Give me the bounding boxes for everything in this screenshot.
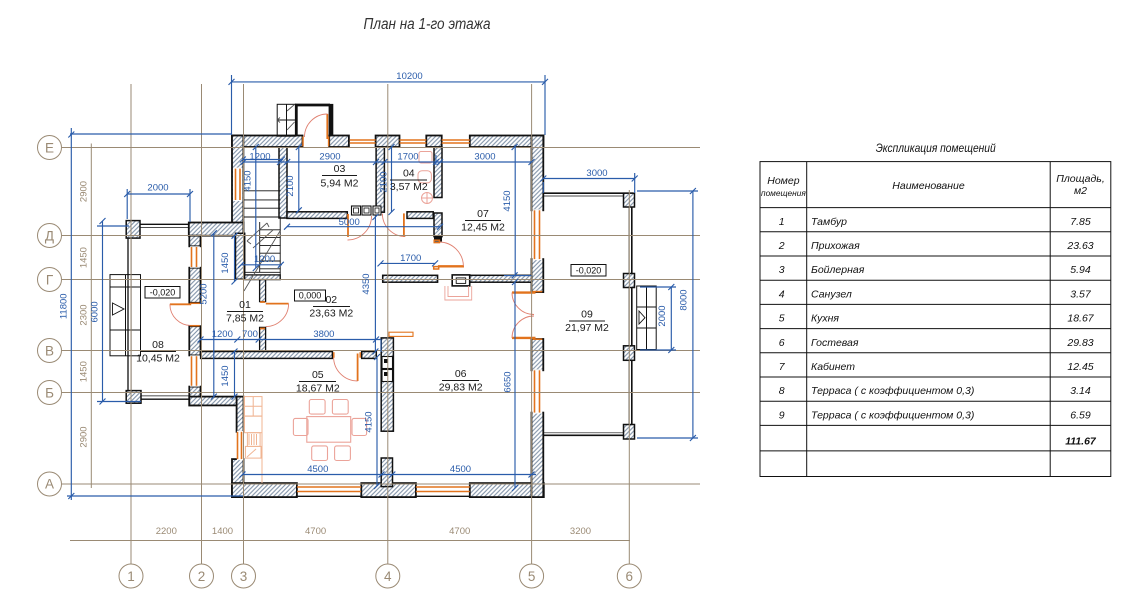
svg-text:Экспликация помещений: Экспликация помещений	[876, 143, 997, 155]
dim 4150 kitchen	[376, 357, 378, 486]
interior wall 03|04	[376, 147, 384, 212]
upper-left outer wall	[232, 136, 243, 236]
svg-text:01: 01	[239, 299, 251, 311]
door 07 leaf	[438, 265, 464, 267]
svg-text:9: 9	[779, 409, 785, 421]
svg-text:05: 05	[312, 369, 324, 381]
kitchen counter top right	[389, 332, 413, 336]
interior wall right of 04	[434, 147, 442, 197]
terrace pier mid1	[624, 274, 635, 288]
circle 1	[119, 564, 143, 588]
svg-text:21,97 М2: 21,97 М2	[565, 322, 609, 334]
svg-text:29,83 М2: 29,83 М2	[439, 382, 483, 394]
bottom axes dim line	[70, 540, 630, 542]
axis E line	[62, 147, 700, 149]
svg-text:2000: 2000	[147, 183, 168, 194]
room 05 label	[296, 369, 340, 395]
balcony doors leaves	[512, 291, 536, 293]
svg-text:4150: 4150	[363, 411, 374, 432]
svg-text:2100: 2100	[285, 175, 296, 196]
svg-text:Бойлерная: Бойлерная	[811, 264, 865, 276]
door 07 arc	[439, 242, 464, 266]
door 05 arc	[334, 357, 358, 381]
svg-text:3.57: 3.57	[1070, 288, 1092, 300]
svg-text:7: 7	[779, 361, 786, 373]
svg-text:4350: 4350	[361, 273, 372, 294]
svg-text:111.67: 111.67	[1065, 436, 1097, 448]
svg-text:4: 4	[779, 288, 785, 300]
svg-text:2900: 2900	[319, 152, 340, 163]
fireplace	[445, 275, 472, 300]
axis A line	[62, 483, 700, 485]
porch steps arrow	[113, 303, 125, 315]
door 04 leaf	[403, 213, 405, 236]
dim 6000 line	[102, 221, 104, 402]
svg-text:А: А	[45, 477, 54, 492]
top interior dim row	[244, 161, 532, 163]
svg-text:10200: 10200	[396, 71, 422, 82]
kitchen counters	[245, 397, 263, 483]
svg-text:0,000: 0,000	[299, 291, 322, 301]
wall stub 01|02 lower	[260, 327, 266, 351]
dim 4500 line	[243, 474, 537, 476]
porch steps	[110, 275, 141, 356]
wc toilet	[418, 152, 433, 204]
lower-left jog	[189, 397, 237, 406]
svg-text:3000: 3000	[474, 152, 495, 163]
svg-text:4700: 4700	[305, 526, 326, 537]
dim 11800 line	[70, 128, 72, 500]
wall stub 01|02 upper	[260, 280, 266, 302]
wall at G axis under stairs	[245, 275, 281, 280]
room 03 label	[321, 163, 359, 190]
window left upper wall	[236, 169, 241, 200]
svg-text:4150: 4150	[502, 190, 513, 211]
terrace top wall	[543, 192, 633, 194]
svg-text:1450: 1450	[79, 361, 90, 382]
svg-text:5,94 М2: 5,94 М2	[321, 178, 359, 190]
svg-text:Прихожая: Прихожая	[811, 240, 860, 252]
svg-text:5: 5	[528, 569, 536, 584]
circle V	[38, 339, 62, 363]
svg-text:3: 3	[779, 264, 785, 276]
window west wall 2	[192, 356, 197, 386]
window right wall 1	[535, 210, 540, 259]
west door leaf	[170, 303, 191, 305]
svg-text:3200: 3200	[570, 526, 591, 537]
axis D line	[62, 235, 700, 237]
svg-text:3: 3	[240, 569, 248, 584]
axis 1 line	[130, 84, 132, 564]
terrace pier top	[624, 193, 635, 207]
svg-text:2: 2	[778, 240, 785, 252]
porch pier top-left	[126, 221, 140, 239]
level 0.000	[295, 290, 326, 301]
svg-text:В: В	[45, 344, 54, 359]
room 08 label	[136, 339, 180, 365]
svg-text:5.94: 5.94	[1070, 264, 1091, 276]
dim 1450 upper	[234, 236, 236, 282]
door 03 arc	[348, 216, 372, 240]
jog wall at D	[189, 223, 244, 236]
stair-hall interior wall	[236, 233, 245, 279]
svg-text:2300: 2300	[79, 304, 90, 325]
svg-text:Терраса ( с коэффициентом 0,3): Терраса ( с коэффициентом 0,3)	[811, 409, 974, 421]
axis 4 line	[387, 84, 389, 564]
circle G	[38, 268, 62, 292]
circle 2	[190, 564, 214, 588]
level -0.020 terrace	[571, 265, 606, 277]
svg-text:1: 1	[127, 569, 135, 584]
circle 4	[376, 564, 400, 588]
west wall segments	[189, 236, 200, 406]
dim 2100 a	[298, 147, 300, 210]
svg-text:6: 6	[626, 569, 634, 584]
svg-text:11800: 11800	[58, 293, 69, 319]
svg-text:6650: 6650	[503, 371, 514, 392]
axis V line	[62, 350, 700, 352]
porch bottom wall	[127, 395, 190, 397]
svg-text:3000: 3000	[586, 168, 607, 179]
svg-text:Тамбур: Тамбур	[811, 216, 847, 228]
svg-text:1400: 1400	[212, 526, 233, 537]
wall 05|06 (w8)	[381, 338, 393, 487]
svg-text:6000: 6000	[90, 301, 101, 322]
dim 4350	[374, 216, 376, 352]
window top wall 3	[442, 140, 470, 143]
lower-left wall	[232, 397, 244, 497]
svg-text:6.59: 6.59	[1070, 409, 1091, 421]
svg-text:12,45 М2: 12,45 М2	[461, 222, 505, 234]
terrace bottom wall	[543, 434, 633, 436]
window west wall 1	[192, 247, 197, 267]
circle 6	[617, 564, 641, 588]
room 06 label	[439, 368, 483, 394]
svg-text:3,57 М2: 3,57 М2	[390, 181, 428, 193]
window lower-left wall	[238, 432, 242, 459]
svg-text:18,67 М2: 18,67 М2	[296, 383, 340, 395]
svg-text:4500: 4500	[450, 464, 471, 475]
svg-text:09: 09	[581, 309, 593, 321]
dim 5200	[213, 233, 215, 396]
svg-text:Площадь,: Площадь,	[1056, 173, 1105, 185]
svg-text:7,85 М2: 7,85 М2	[226, 313, 264, 325]
svg-text:1700: 1700	[397, 152, 418, 163]
circle D	[38, 224, 62, 248]
svg-text:5200: 5200	[199, 283, 210, 304]
circle 3	[232, 564, 256, 588]
west door jambs	[190, 302, 200, 304]
svg-text:Кабинет: Кабинет	[811, 361, 855, 373]
svg-text:1700: 1700	[400, 253, 421, 264]
terrace right wall	[631, 193, 633, 436]
svg-text:2900: 2900	[79, 181, 90, 202]
dim 8000	[692, 191, 694, 438]
svg-text:29.83: 29.83	[1066, 337, 1093, 349]
svg-text:04: 04	[403, 168, 415, 180]
appliances row (room 03 bottom)	[352, 206, 382, 215]
svg-text:2100: 2100	[378, 171, 389, 192]
svg-text:Гостевая: Гостевая	[811, 337, 859, 349]
svg-text:18.67: 18.67	[1067, 313, 1094, 325]
shaft boxes on w8	[382, 357, 393, 382]
dining table	[293, 400, 366, 461]
svg-text:03: 03	[334, 163, 346, 175]
stub caps	[260, 301, 265, 303]
dim 1700 top04 extension	[435, 155, 437, 165]
circle E	[38, 136, 62, 160]
axis 2 line	[201, 84, 203, 564]
svg-text:1: 1	[779, 216, 785, 228]
dim 10200 line	[232, 81, 546, 83]
svg-text:10,45 М2: 10,45 М2	[136, 353, 180, 365]
svg-text:1450: 1450	[79, 247, 90, 268]
door 01 arc	[266, 304, 289, 327]
entry door leaf	[326, 114, 328, 139]
svg-text:7.85: 7.85	[1070, 216, 1091, 228]
svg-text:Терраса ( с коэффициентом 0,3): Терраса ( с коэффициентом 0,3)	[811, 385, 974, 397]
svg-text:Д: Д	[45, 229, 54, 244]
svg-text:Г: Г	[46, 273, 54, 288]
axis G line	[62, 279, 700, 281]
svg-text:м2: м2	[1074, 185, 1087, 197]
svg-text:6: 6	[779, 337, 785, 349]
entry steps marks	[277, 105, 294, 131]
svg-text:4: 4	[384, 569, 392, 584]
svg-text:02: 02	[325, 294, 337, 306]
door 01 leaf	[266, 303, 289, 305]
circle 5	[520, 564, 544, 588]
terrace pier bottom	[624, 425, 635, 440]
svg-text:2200: 2200	[156, 526, 177, 537]
svg-text:23,63 М2: 23,63 М2	[309, 308, 353, 320]
door 04 arc	[382, 214, 405, 237]
balcony door arcs	[512, 293, 534, 315]
door 07 jambs	[434, 240, 439, 242]
svg-text:07: 07	[477, 208, 489, 220]
svg-text:5000: 5000	[339, 217, 360, 228]
svg-text:8000: 8000	[679, 289, 690, 310]
level -0.020 porch	[145, 287, 180, 299]
door 05 leaf	[357, 354, 359, 382]
svg-text:06: 06	[455, 368, 467, 380]
right outer wall	[532, 136, 544, 498]
left bottom connector	[67, 495, 243, 497]
svg-text:23.63: 23.63	[1066, 240, 1093, 252]
svg-text:Е: Е	[45, 141, 54, 156]
entry steps	[277, 104, 296, 136]
entry canopy walls	[296, 105, 330, 136]
entry door jambs	[302, 137, 304, 147]
terrace steps arrow	[639, 311, 645, 324]
svg-text:08: 08	[152, 339, 164, 351]
svg-text:3800: 3800	[313, 329, 334, 340]
axis B line	[62, 392, 700, 394]
svg-text:12.45: 12.45	[1067, 361, 1093, 373]
top wall (E axis)	[232, 136, 544, 148]
svg-text:1200: 1200	[254, 254, 275, 265]
svg-text:3.14: 3.14	[1070, 385, 1091, 397]
terrace steps	[637, 286, 657, 350]
svg-text:2: 2	[198, 569, 206, 584]
terrace pier mid2	[624, 346, 635, 361]
svg-text:4700: 4700	[449, 526, 470, 537]
svg-text:Кухня: Кухня	[811, 313, 839, 325]
svg-text:1200: 1200	[212, 329, 233, 340]
window top wall 1	[350, 140, 376, 143]
window bottom wall 2	[416, 487, 470, 496]
svg-text:700: 700	[242, 329, 258, 340]
room 04 label	[390, 168, 428, 194]
circle A	[38, 472, 62, 496]
left top connector	[70, 133, 232, 135]
dim 4150 right	[514, 145, 516, 275]
dim 3800 tick line	[380, 340, 382, 353]
wall 02|05 (w7)	[201, 352, 377, 359]
svg-text:8: 8	[779, 385, 785, 397]
entry door arc	[305, 114, 328, 137]
wall 02|06-07 (w9)	[383, 275, 532, 282]
wall under rooms 03-04 (5000)	[287, 212, 433, 219]
dim 1200 stairs	[243, 159, 282, 161]
dim 1200 stair lower	[241, 264, 282, 266]
dim 1450 lower	[234, 352, 236, 397]
west door arc	[170, 304, 191, 325]
dim 6650	[514, 282, 516, 488]
left axes dim line	[90, 144, 92, 489]
dim 5000	[287, 226, 440, 228]
dim 3000 terrace	[543, 178, 634, 180]
window right wall 2	[535, 370, 540, 412]
balcony door jambs	[533, 291, 543, 293]
svg-text:-0,020: -0,020	[150, 287, 176, 297]
dim row 1200-700-3800	[201, 339, 382, 341]
svg-text:4150: 4150	[243, 170, 254, 191]
svg-text:2000: 2000	[657, 305, 668, 326]
svg-text:Б: Б	[45, 386, 54, 401]
axis 3 line	[243, 84, 245, 564]
window bottom wall 1	[297, 487, 361, 496]
svg-text:помещения: помещения	[761, 188, 806, 198]
svg-text:Санузел: Санузел	[811, 288, 852, 300]
svg-text:Наименование: Наименование	[892, 180, 965, 192]
window top wall 2	[400, 140, 427, 143]
axis 6 line	[628, 190, 630, 564]
dim 2100 b	[391, 147, 393, 212]
circle B	[38, 381, 62, 405]
room 01 label	[226, 299, 264, 325]
door 03 leaf	[347, 214, 349, 237]
door 05 jambs	[333, 352, 335, 358]
room 02 label	[309, 294, 353, 320]
porch left wall	[127, 224, 129, 399]
svg-text:5: 5	[779, 313, 785, 325]
dim 4150 left	[255, 147, 257, 268]
svg-text:2900: 2900	[79, 426, 90, 447]
porch pier bottom-left	[126, 391, 141, 404]
dim 2000 porch	[127, 193, 190, 195]
room 09 label	[565, 309, 609, 335]
bottom wall (A axis)	[232, 483, 544, 497]
svg-text:1450: 1450	[220, 365, 231, 386]
svg-text:-0,020: -0,020	[576, 265, 602, 275]
svg-text:1450: 1450	[220, 252, 231, 273]
dim 2000 steps	[670, 287, 672, 350]
room 07 label	[461, 208, 505, 234]
svg-text:План на 1-го этажа: План на 1-го этажа	[364, 16, 491, 33]
svg-text:Номер: Номер	[767, 175, 799, 187]
porch top wall	[127, 223, 189, 225]
interior wall 02|03	[279, 147, 287, 218]
dim 1700 lower	[381, 262, 436, 264]
axis 5 line	[531, 84, 533, 564]
svg-text:1200: 1200	[249, 152, 270, 163]
svg-text:4500: 4500	[307, 464, 328, 475]
